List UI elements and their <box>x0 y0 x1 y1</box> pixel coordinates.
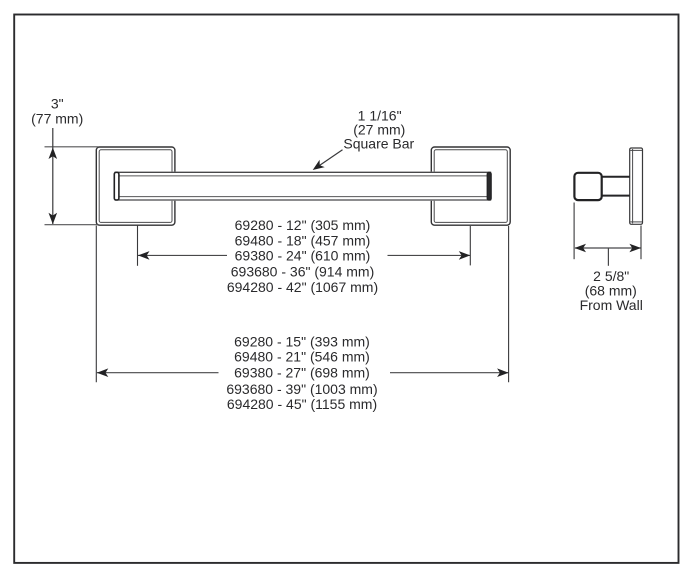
towel bar (front view) <box>114 172 493 201</box>
bar right end cap <box>487 172 491 200</box>
square bar leader arrowhead <box>313 160 325 170</box>
square bar leader line <box>317 150 343 168</box>
height dimension bottom tick <box>45 224 99 226</box>
from-wall label From Wall <box>580 297 643 313</box>
svg-text:(77 mm): (77 mm) <box>31 110 83 126</box>
svg-text:69380 - 24" (610 mm): 69380 - 24" (610 mm) <box>235 248 371 264</box>
svg-text:3": 3" <box>51 95 64 111</box>
overall length dimension line left segment <box>97 372 219 374</box>
right mounting flange <box>431 147 510 225</box>
overall length left arrowhead <box>97 368 109 377</box>
overall length size list <box>226 334 377 412</box>
from-wall center leader stub <box>607 248 609 266</box>
height label 3" <box>51 95 64 111</box>
side view bar end knob <box>574 173 601 200</box>
svg-text:693680 - 39" (1003 mm): 693680 - 39" (1003 mm) <box>226 381 377 397</box>
from-wall right arrowhead <box>629 244 641 253</box>
center-to-center left extension line <box>137 226 139 266</box>
svg-text:69280 - 12" (305 mm): 69280 - 12" (305 mm) <box>235 217 371 233</box>
center-to-center right extension line <box>469 226 471 265</box>
overall length dimension line right segment <box>390 372 508 374</box>
from-wall right extension line <box>640 226 642 260</box>
height dimension top tick <box>45 146 99 148</box>
svg-text:694280 - 45" (1155 mm): 694280 - 45" (1155 mm) <box>227 396 377 412</box>
left mounting flange <box>96 147 175 225</box>
center-to-center dimension line left segment <box>138 254 227 256</box>
height dimension up arrowhead <box>49 148 58 160</box>
from-wall label (68 mm) <box>585 283 637 299</box>
square bar label text <box>343 135 414 151</box>
square bar label (27 mm) <box>353 122 405 138</box>
from-wall dimension line <box>575 247 641 249</box>
side view post stem <box>601 177 630 196</box>
height dimension down arrowhead <box>49 213 58 225</box>
svg-text:69380 - 27" (698 mm): 69380 - 27" (698 mm) <box>234 365 370 381</box>
svg-text:Square Bar: Square Bar <box>343 135 414 151</box>
bar left end cap <box>114 172 119 200</box>
from-wall left arrowhead <box>575 244 587 253</box>
center-to-center left arrowhead <box>138 251 150 260</box>
from-wall left extension line <box>573 203 575 260</box>
svg-text:69280 - 15" (393 mm): 69280 - 15" (393 mm) <box>234 334 370 350</box>
height dimension line <box>52 128 54 224</box>
from-wall label 2 5/8" <box>593 268 629 284</box>
square bar label 1 1/16" <box>358 108 402 124</box>
svg-text:693680 - 36" (914 mm): 693680 - 36" (914 mm) <box>231 264 375 280</box>
overall length left extension line <box>95 226 97 383</box>
height label (77 mm) <box>31 110 83 126</box>
center-to-center dimension line right segment <box>388 254 471 256</box>
overall length right arrowhead <box>497 368 509 377</box>
svg-text:694280 - 42" (1067 mm): 694280 - 42" (1067 mm) <box>227 279 378 295</box>
center-to-center size list <box>227 217 378 295</box>
side view wall plate <box>630 148 643 224</box>
svg-text:69480 - 18" (457 mm): 69480 - 18" (457 mm) <box>235 232 371 248</box>
overall length right extension line <box>508 226 510 382</box>
center-to-center right arrowhead <box>459 251 471 260</box>
svg-text:69480 - 21" (546 mm): 69480 - 21" (546 mm) <box>234 349 370 365</box>
svg-text:From Wall: From Wall <box>580 297 643 313</box>
